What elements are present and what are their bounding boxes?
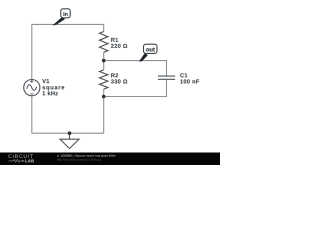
label V1 [42,79,49,83]
node junction dot R2/C1 bottom [102,95,106,99]
node junction dot ground [68,131,72,135]
wire: V1 top to R1 top [32,24,104,79]
watermark logo CIRCUIT [8,154,32,158]
value 100 nF [180,79,199,83]
node flag in: box [61,9,70,18]
ground [69,133,71,139]
watermark bar [0,153,220,166]
wire: node to R2 top stub [103,61,105,70]
flag text out [146,48,155,52]
label square [42,86,64,90]
value 330 ohm [111,79,127,83]
resistor R2 [100,70,108,89]
wire: R2 bottom to bottom rail [103,89,105,133]
value 220 ohm [111,44,127,48]
V1 plus terminal [30,80,33,83]
wire: out row node to C1 top [104,61,167,76]
resistor R1 [100,32,108,53]
label 1 kHz [43,91,58,95]
watermark title [57,154,116,157]
V1 sine glyph [27,85,37,90]
label R1 [111,38,118,42]
label C1 [180,73,187,77]
voltage source V1 [24,80,40,96]
watermark url [57,158,100,161]
label R2 [111,73,118,77]
wire: C1 bottom to R2 bottom node [104,80,167,97]
watermark logo LAB [25,159,34,162]
node flag out: wedge [139,53,148,62]
node flag in: wedge [52,17,65,26]
node junction dot R1/R2/out [102,59,106,63]
V1 minus terminal [30,93,33,95]
wire: R1 bottom stub to node [103,52,105,60]
node flag out: box [144,44,158,53]
flag text in [63,12,67,16]
watermark logo zigzag wire [8,160,23,163]
wire: V1 bottom to bottom rail [32,96,104,134]
capacitor C1 [158,75,175,77]
